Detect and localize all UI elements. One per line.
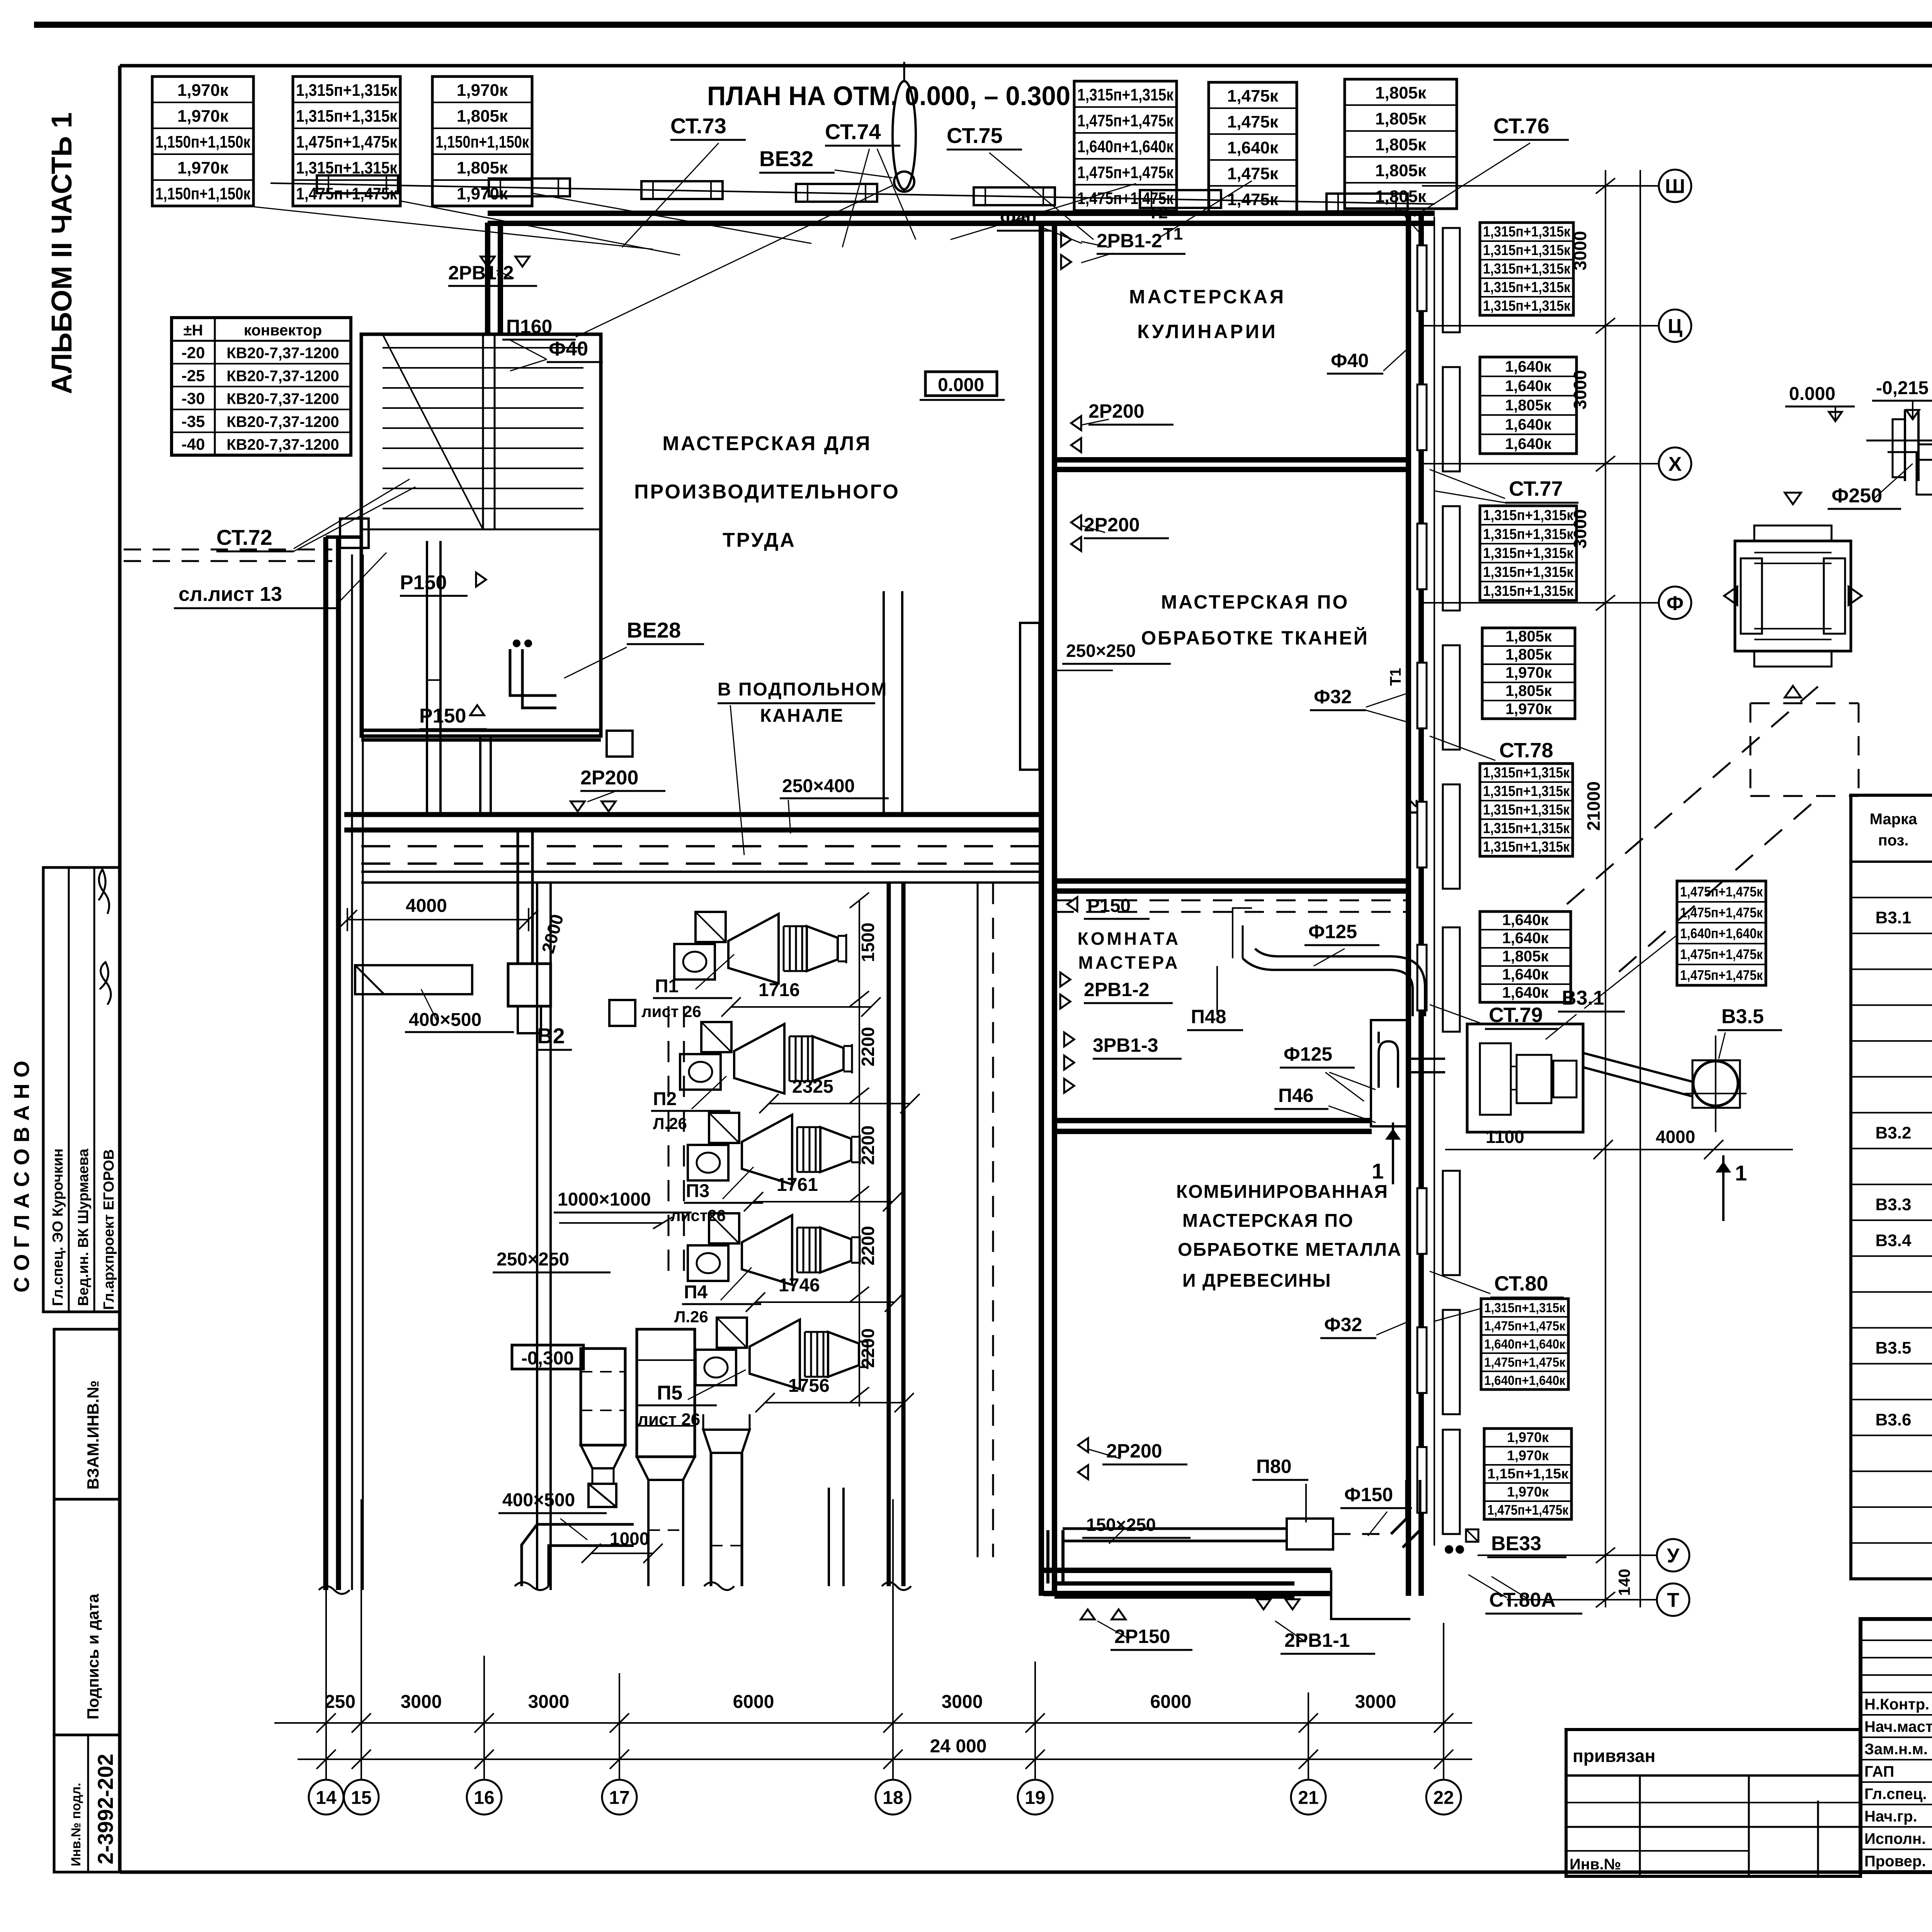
svg-text:1,475п+1,475к: 1,475п+1,475к xyxy=(1680,884,1763,900)
grid line extension xyxy=(361,1499,362,1779)
value stack table xyxy=(152,77,253,206)
pilaster niche xyxy=(1443,1430,1460,1534)
svg-text:1,805к: 1,805к xyxy=(1375,161,1427,180)
radiator xyxy=(641,181,723,199)
pilaster niche xyxy=(1443,1310,1460,1414)
svg-text:Ц: Ц xyxy=(1668,315,1682,338)
intake wall & duct F250 left xyxy=(1904,410,1906,481)
svg-text:привязан: привязан xyxy=(1573,1746,1655,1766)
window at right wall xyxy=(1417,384,1427,450)
svg-text:2РВ1-2: 2РВ1-2 xyxy=(448,262,514,284)
P80 branch box xyxy=(1287,1519,1333,1549)
value stack table xyxy=(1074,81,1177,211)
svg-text:Подпись и дата: Подпись и дата xyxy=(84,1594,102,1719)
svg-text:Инв.№: Инв.№ xyxy=(1570,1856,1621,1873)
svg-text:16: 16 xyxy=(474,1787,494,1808)
machine P2 xyxy=(680,1022,852,1094)
svg-text:2200: 2200 xyxy=(858,1328,878,1368)
svg-text:ПРОИЗВОДИТЕЛЬНОГО: ПРОИЗВОДИТЕЛЬНОГО xyxy=(634,481,900,503)
svg-text:18: 18 xyxy=(883,1787,903,1808)
value stack table xyxy=(1480,357,1577,454)
svg-text:1,150п+1,150к: 1,150п+1,150к xyxy=(155,184,251,203)
svg-text:Исполн.: Исполн. xyxy=(1864,1830,1926,1847)
svg-text:МАСТЕРСКАЯ ПО: МАСТЕРСКАЯ ПО xyxy=(1182,1211,1354,1231)
svg-text:1,315п+1,315к: 1,315п+1,315к xyxy=(1483,583,1574,599)
svg-text:2Р200: 2Р200 xyxy=(1088,400,1145,422)
right outer wall xyxy=(1406,213,1411,1596)
svg-text:1,150п+1,150к: 1,150п+1,150к xyxy=(155,133,251,151)
svg-text:1,640п+1,640к: 1,640п+1,640к xyxy=(1484,1373,1566,1388)
svg-text:1,315п+1,315к: 1,315п+1,315к xyxy=(1483,783,1570,799)
silo 1 xyxy=(581,1349,625,1445)
svg-text:1,805к: 1,805к xyxy=(1505,397,1552,414)
svg-text:В3.3: В3.3 xyxy=(1876,1195,1912,1214)
svg-text:1,475п+1,475к: 1,475п+1,475к xyxy=(1077,163,1174,182)
svg-text:ГАП: ГАП xyxy=(1864,1763,1894,1780)
grid axis 19 xyxy=(1018,1780,1053,1815)
machine P4 xyxy=(688,1213,860,1285)
svg-text:1716: 1716 xyxy=(759,980,800,1000)
radiator xyxy=(1140,190,1221,208)
svg-text:1746: 1746 xyxy=(779,1275,820,1296)
svg-text:СТ.80: СТ.80 xyxy=(1494,1272,1548,1295)
svg-text:21: 21 xyxy=(1298,1787,1318,1808)
value stack table xyxy=(1480,912,1571,1002)
grid line extension xyxy=(325,1499,327,1779)
svg-text:Ф125: Ф125 xyxy=(1308,921,1357,942)
cyclone plan xyxy=(1692,1060,1740,1108)
svg-text:-0,215: -0,215 xyxy=(1876,378,1929,398)
svg-text:П2: П2 xyxy=(653,1089,677,1109)
svg-text:1,970к: 1,970к xyxy=(177,81,229,100)
svg-text:П3: П3 xyxy=(686,1181,709,1201)
svg-text:Зам.н.м.: Зам.н.м. xyxy=(1864,1741,1928,1758)
svg-text:Ф32: Ф32 xyxy=(1314,686,1352,707)
grid axis 22 xyxy=(1426,1780,1461,1815)
top wall xyxy=(488,211,1435,216)
value stack table xyxy=(1480,764,1573,856)
svg-text:19: 19 xyxy=(1025,1787,1045,1808)
svg-text:1,315п+1,315к: 1,315п+1,315к xyxy=(1483,839,1570,855)
svg-text:2200: 2200 xyxy=(858,1226,878,1265)
svg-text:1,315п+1,315к: 1,315п+1,315к xyxy=(1483,507,1574,524)
machine P5 xyxy=(696,1318,867,1389)
svg-text:ОБРАБОТКЕ ТКАНЕЙ: ОБРАБОТКЕ ТКАНЕЙ xyxy=(1141,627,1369,649)
svg-text:Т1: Т1 xyxy=(1163,224,1183,243)
svg-text:1,805к: 1,805к xyxy=(457,158,508,177)
svg-text:КВ20-7,37-1200: КВ20-7,37-1200 xyxy=(226,436,339,453)
svg-text:Гл.спец. ЭО Курочкин: Гл.спец. ЭО Курочкин xyxy=(50,1148,66,1306)
svg-text:В3.2: В3.2 xyxy=(1876,1123,1912,1142)
svg-text:1,640к: 1,640к xyxy=(1502,966,1549,983)
svg-text:МАСТЕРСКАЯ ДЛЯ: МАСТЕРСКАЯ ДЛЯ xyxy=(662,432,871,455)
konvektor table xyxy=(172,318,351,455)
svg-text:ВЕ28: ВЕ28 xyxy=(627,618,681,642)
svg-text:1,475к: 1,475к xyxy=(1227,112,1279,131)
svg-text:250×250: 250×250 xyxy=(497,1249,569,1270)
svg-text:1,640п+1,640к: 1,640п+1,640к xyxy=(1680,925,1763,941)
svg-text:Л.26: Л.26 xyxy=(653,1114,687,1133)
svg-text:14: 14 xyxy=(316,1787,337,1808)
svg-text:2200: 2200 xyxy=(858,1027,878,1066)
svg-text:1,315п+1,315к: 1,315п+1,315к xyxy=(1483,526,1574,543)
stair tread xyxy=(383,508,583,509)
svg-text:1,315п+1,315к: 1,315п+1,315к xyxy=(1483,820,1570,837)
svg-text:1,315п+1,315к: 1,315п+1,315к xyxy=(1483,564,1574,580)
svg-text:КВ20-7,37-1200: КВ20-7,37-1200 xyxy=(226,391,339,408)
svg-text:конвектор: конвектор xyxy=(244,322,322,339)
grille unit box with loops xyxy=(1371,1020,1410,1126)
svg-text:1: 1 xyxy=(1735,1161,1747,1185)
svg-text:-35: -35 xyxy=(182,412,205,430)
svg-text:1,315п+1,315к: 1,315п+1,315к xyxy=(296,107,398,126)
svg-text:22: 22 xyxy=(1433,1787,1454,1808)
svg-text:Ф40: Ф40 xyxy=(1000,208,1036,228)
lower stamp boxes xyxy=(54,1329,120,1499)
svg-text:Л.26: Л.26 xyxy=(674,1308,708,1326)
room divider: tkani / komnata mastera xyxy=(1054,878,1408,884)
svg-text:П5: П5 xyxy=(657,1382,682,1404)
second duct pair xyxy=(977,883,979,1557)
stair tread xyxy=(383,447,583,449)
svg-text:СТ.74: СТ.74 xyxy=(825,119,881,144)
tall duct with bell (P5 riser) xyxy=(710,1453,713,1586)
dashed square below heater xyxy=(1750,703,1752,796)
room divider right block: kulinariya/tkani xyxy=(1054,457,1408,463)
grid axis Х xyxy=(1659,447,1691,480)
grid line extension xyxy=(1034,1662,1036,1779)
dims 1100 and 4000 at fan xyxy=(1445,1149,1793,1150)
value stack table xyxy=(1480,506,1577,600)
inner left wall lower xyxy=(351,554,353,1590)
svg-text:КОМБИНИРОВАННАЯ: КОМБИНИРОВАННАЯ xyxy=(1176,1182,1388,1202)
heater unit plan xyxy=(1724,493,1862,697)
vertical dim chain right of machines xyxy=(859,900,860,1406)
svg-text:ТРУДА: ТРУДА xyxy=(723,529,796,551)
grid axis 18 xyxy=(876,1780,910,1815)
svg-text:Нач.гр.: Нач.гр. xyxy=(1864,1808,1917,1825)
cyclone plan circle xyxy=(1693,1061,1738,1106)
svg-text:С О Г Л А С О В А Н О: С О Г Л А С О В А Н О xyxy=(9,1061,34,1293)
svg-text:1,315п+1,315к: 1,315п+1,315к xyxy=(1483,242,1571,259)
svg-text:В3.5: В3.5 xyxy=(1876,1338,1912,1357)
svg-text:-40: -40 xyxy=(182,435,205,453)
radiator xyxy=(489,179,570,196)
svg-text:1,315п+1,315к: 1,315п+1,315к xyxy=(1483,224,1571,240)
approval stamp table xyxy=(43,867,120,1312)
svg-text:Ш: Ш xyxy=(1665,175,1685,198)
svg-text:1,315п+1,315к: 1,315п+1,315к xyxy=(1483,802,1570,818)
svg-text:В3.4: В3.4 xyxy=(1876,1231,1912,1250)
duct to cyclone xyxy=(1583,1053,1693,1082)
bottom dims xyxy=(274,1722,1472,1724)
signatures squiggles xyxy=(99,869,109,914)
stair block xyxy=(361,334,601,736)
svg-text:Вед.ин. ВК Шурмаева: Вед.ин. ВК Шурмаева xyxy=(75,1148,92,1306)
svg-text:Х: Х xyxy=(1668,453,1682,476)
svg-text:1,640к: 1,640к xyxy=(1502,912,1549,929)
svg-text:И ДРЕВЕСИНЫ: И ДРЕВЕСИНЫ xyxy=(1182,1270,1332,1291)
privyazan box xyxy=(1566,1730,1861,1876)
window at right wall xyxy=(1417,1188,1427,1254)
svg-text:24 000: 24 000 xyxy=(930,1736,987,1757)
svg-text:ВЕ32: ВЕ32 xyxy=(759,146,813,171)
svg-text:1,970к: 1,970к xyxy=(177,107,229,126)
svg-text:П48: П48 xyxy=(1191,1006,1226,1027)
machine room left wall xyxy=(536,883,538,1590)
svg-text:1,150п+1,150к: 1,150п+1,150к xyxy=(435,133,529,151)
elbow up to BE33 xyxy=(1391,1480,1406,1534)
svg-text:2Р200: 2Р200 xyxy=(1106,1440,1162,1462)
svg-text:ВЗАМ.ИНВ.№: ВЗАМ.ИНВ.№ xyxy=(84,1381,102,1490)
section cut marks 1-1 xyxy=(1392,1122,1394,1184)
svg-text:1756: 1756 xyxy=(788,1376,830,1396)
value stack table xyxy=(432,77,532,206)
leader lines from stack tables to wall xyxy=(253,207,653,249)
svg-text:2325: 2325 xyxy=(792,1077,833,1097)
fan B2 xyxy=(508,964,551,1006)
vertical dim line right of plan xyxy=(1605,170,1606,1607)
lower duct run 150x250 xyxy=(1063,1527,1287,1530)
duct 250x400 under wall xyxy=(361,871,1041,873)
svg-text:15: 15 xyxy=(351,1787,371,1808)
svg-text:2РВ1-2: 2РВ1-2 xyxy=(1084,979,1150,1000)
svg-text:КАНАЛЕ: КАНАЛЕ xyxy=(760,706,844,726)
grid axis 17 xyxy=(602,1780,637,1815)
svg-text:3000: 3000 xyxy=(1355,1692,1396,1712)
svg-text:У: У xyxy=(1667,1545,1680,1567)
svg-text:6000: 6000 xyxy=(733,1692,774,1712)
svg-text:1,475п+1,475к: 1,475п+1,475к xyxy=(1680,946,1763,962)
svg-text:2Р200: 2Р200 xyxy=(580,767,638,789)
svg-text:Т: Т xyxy=(1667,1589,1679,1612)
svg-text:2200: 2200 xyxy=(858,1126,878,1165)
svg-text:4000: 4000 xyxy=(1656,1127,1695,1147)
svg-text:Нач.маст.: Нач.маст. xyxy=(1864,1718,1932,1735)
svg-text:1,315п+1,315к: 1,315п+1,315к xyxy=(296,81,398,100)
radiator xyxy=(317,175,398,193)
right wall outer band xyxy=(1434,216,1435,1546)
svg-text:1,970к: 1,970к xyxy=(457,81,508,100)
grid axis Ц xyxy=(1659,310,1691,342)
underfloor channel dashed lines xyxy=(361,845,1041,847)
svg-text:1,970к: 1,970к xyxy=(1507,1447,1549,1463)
svg-text:±Н: ±Н xyxy=(184,322,203,339)
BE28 elbow duct xyxy=(510,649,556,696)
svg-text:6000: 6000 xyxy=(1150,1692,1192,1712)
svg-text:В3.5: В3.5 xyxy=(1721,1005,1764,1028)
svg-text:В2: В2 xyxy=(537,1024,565,1048)
svg-text:В ПОДПОЛЬНОМ: В ПОДПОЛЬНОМ xyxy=(718,679,888,700)
grid line extension xyxy=(1308,1692,1309,1779)
fan unit plan xyxy=(1467,1024,1583,1132)
svg-text:1,805к: 1,805к xyxy=(1375,109,1427,128)
dashed leaders to section xyxy=(1567,678,1828,904)
svg-text:1100: 1100 xyxy=(1486,1127,1524,1147)
svg-text:1,640п+1,640к: 1,640п+1,640к xyxy=(1077,137,1174,156)
vertical duct in workshop to channel xyxy=(883,591,885,815)
radiator xyxy=(796,184,877,202)
svg-text:КВ20-7,37-1200: КВ20-7,37-1200 xyxy=(226,367,339,384)
svg-text:Ф150: Ф150 xyxy=(1344,1484,1393,1505)
svg-text:250×400: 250×400 xyxy=(782,776,855,796)
svg-text:Т1: Т1 xyxy=(1387,668,1404,686)
value stack table xyxy=(1484,1429,1571,1519)
window at right wall xyxy=(1417,663,1427,728)
lower elbow duct xyxy=(522,1524,634,1586)
svg-text:Н.Контр.: Н.Контр. xyxy=(1864,1696,1929,1713)
room divider: komnata mastera bottom xyxy=(1054,1118,1372,1123)
window at right wall xyxy=(1417,1447,1427,1513)
pilaster niche xyxy=(1443,1171,1460,1275)
value stack table xyxy=(1480,223,1573,315)
svg-text:КВ20-7,37-1200: КВ20-7,37-1200 xyxy=(226,345,339,362)
svg-text:-25: -25 xyxy=(182,366,205,384)
svg-text:3000: 3000 xyxy=(401,1692,442,1712)
window at right wall xyxy=(1417,945,1427,1010)
svg-text:1,970к: 1,970к xyxy=(1505,664,1552,681)
svg-text:2-3992-202: 2-3992-202 xyxy=(93,1754,117,1864)
svg-text:МАСТЕРСКАЯ ПО: МАСТЕРСКАЯ ПО xyxy=(1161,591,1349,613)
svg-text:1,640к: 1,640к xyxy=(1505,416,1552,433)
svg-text:Р150: Р150 xyxy=(1087,896,1131,916)
svg-text:1500: 1500 xyxy=(858,923,878,962)
svg-text:Гл.архпроект ЕГОРОВ: Гл.архпроект ЕГОРОВ xyxy=(101,1149,117,1310)
svg-text:3РВ1-3: 3РВ1-3 xyxy=(1093,1034,1158,1056)
svg-text:-20: -20 xyxy=(182,344,205,362)
stair tread xyxy=(383,407,583,409)
radiator band line xyxy=(270,183,1435,204)
svg-text:1,640к: 1,640к xyxy=(1227,138,1279,157)
corridor wall below stairs xyxy=(479,736,481,815)
value stack table xyxy=(1345,79,1457,209)
window at right wall xyxy=(1417,245,1427,311)
svg-text:1,640к: 1,640к xyxy=(1505,378,1552,395)
machine P1 xyxy=(674,912,846,983)
pilaster niche xyxy=(1443,367,1460,471)
value stack table xyxy=(1677,881,1766,985)
pilaster niche xyxy=(1443,506,1460,611)
grid axis Ф xyxy=(1659,587,1691,619)
wall left of workshop xyxy=(485,223,490,334)
svg-text:П160: П160 xyxy=(506,316,552,337)
svg-text:17: 17 xyxy=(609,1787,629,1808)
stair tread xyxy=(383,427,583,429)
svg-text:1,475к: 1,475к xyxy=(1227,190,1279,209)
duct 400x500 xyxy=(355,965,472,994)
svg-text:1,315п+1,315к: 1,315п+1,315к xyxy=(1484,1301,1566,1315)
svg-text:П46: П46 xyxy=(1278,1085,1314,1106)
svg-text:1,315п+1,315к: 1,315п+1,315к xyxy=(1483,279,1571,296)
svg-text:П4: П4 xyxy=(684,1282,708,1303)
center wall xyxy=(1039,223,1044,1596)
svg-text:400×500: 400×500 xyxy=(502,1490,575,1510)
svg-text:2Р150: 2Р150 xyxy=(1114,1626,1170,1647)
title block xyxy=(1861,1619,1932,1872)
svg-text:КОМНАТА: КОМНАТА xyxy=(1078,929,1181,949)
svg-text:1,315п+1,315к: 1,315п+1,315к xyxy=(1483,545,1574,561)
dim 4000 xyxy=(347,919,529,920)
svg-text:ПЛАН НА ОТМ. 0.000, – 0.300: ПЛАН НА ОТМ. 0.000, – 0.300 xyxy=(707,81,1070,111)
svg-text:1,640к: 1,640к xyxy=(1505,358,1552,375)
svg-text:СТ.76: СТ.76 xyxy=(1493,114,1549,138)
svg-text:МАСТЕРСКАЯ: МАСТЕРСКАЯ xyxy=(1129,286,1286,308)
pilaster niche xyxy=(1443,927,1460,1032)
value stack table xyxy=(293,77,400,206)
svg-text:1,640к: 1,640к xyxy=(1505,435,1552,452)
svg-text:1,15п+1,15к: 1,15п+1,15к xyxy=(1487,1466,1569,1481)
svg-text:Инв.№ подл.: Инв.№ подл. xyxy=(69,1783,83,1866)
svg-text:1,475п+1,475к: 1,475п+1,475к xyxy=(1077,111,1174,130)
svg-text:2РВ1-2: 2РВ1-2 xyxy=(1097,230,1162,252)
svg-text:1,475п+1,475к: 1,475п+1,475к xyxy=(1484,1355,1566,1370)
left outer wall xyxy=(323,537,328,1590)
svg-text:140: 140 xyxy=(1615,1569,1633,1596)
svg-text:1,315п+1,315к: 1,315п+1,315к xyxy=(1077,85,1174,104)
svg-text:1,805к: 1,805к xyxy=(1502,948,1549,965)
svg-text:Ф40: Ф40 xyxy=(1331,350,1369,371)
svg-text:ОБРАБОТКЕ МЕТАЛЛА: ОБРАБОТКЕ МЕТАЛЛА xyxy=(1178,1240,1402,1260)
svg-text:КВ20-7,37-1200: КВ20-7,37-1200 xyxy=(226,413,339,430)
grid axis Ш xyxy=(1659,170,1691,202)
svg-text:П1: П1 xyxy=(655,976,679,997)
bottom wall right block xyxy=(1043,1568,1331,1573)
svg-text:Ф125: Ф125 xyxy=(1284,1043,1332,1065)
dashed duct 1000x1000 xyxy=(668,1006,670,1279)
BE32 shaft oval xyxy=(893,81,916,189)
steps left of pit xyxy=(1888,452,1932,537)
value stack table xyxy=(1209,82,1297,212)
svg-text:П80: П80 xyxy=(1256,1456,1292,1477)
svg-text:1,475к: 1,475к xyxy=(1227,164,1279,183)
svg-text:1,970к: 1,970к xyxy=(1505,701,1552,718)
svg-text:В3.1: В3.1 xyxy=(1876,908,1912,927)
thick bottom duct xyxy=(1054,1582,1294,1586)
BE33 box xyxy=(1466,1529,1478,1542)
wall bottom of workshop room xyxy=(344,812,1041,817)
floor slab lines xyxy=(1866,440,1932,442)
svg-text:1,315п+1,315к: 1,315п+1,315к xyxy=(1483,298,1571,314)
svg-text:2РВ1-1: 2РВ1-1 xyxy=(1284,1629,1350,1651)
svg-text:1,805к: 1,805к xyxy=(1505,628,1552,645)
svg-text:1,475п+1,475к: 1,475п+1,475к xyxy=(1680,967,1763,983)
grid line extension xyxy=(892,1499,894,1779)
svg-text:3000: 3000 xyxy=(1570,231,1590,270)
svg-text:Марка: Марка xyxy=(1870,811,1918,828)
machine P3 xyxy=(688,1113,860,1184)
svg-text:1,805к: 1,805к xyxy=(1505,682,1552,699)
svg-text:1,805к: 1,805к xyxy=(457,107,508,126)
svg-text:3000: 3000 xyxy=(528,1692,570,1712)
svg-text:1,315п+1,315к: 1,315п+1,315к xyxy=(1483,261,1571,277)
svg-text:МАСТЕРА: МАСТЕРА xyxy=(1078,952,1180,973)
svg-text:1,970к: 1,970к xyxy=(177,158,229,177)
stair tread xyxy=(383,468,583,469)
grid line extension xyxy=(1443,1623,1444,1779)
junction box on dashed line xyxy=(609,1000,635,1026)
svg-text:СТ.72: СТ.72 xyxy=(216,525,272,549)
svg-text:Ф40: Ф40 xyxy=(549,338,588,360)
svg-text:1,315п+1,315к: 1,315п+1,315к xyxy=(1483,765,1570,781)
value stack table xyxy=(1482,628,1575,719)
svg-text:-0,300: -0,300 xyxy=(521,1348,574,1369)
dashed corridor to sheet 13 xyxy=(124,549,332,551)
svg-text:СТ.77: СТ.77 xyxy=(1509,477,1563,500)
svg-text:лист 26: лист 26 xyxy=(641,1002,701,1020)
svg-text:сл.лист 13: сл.лист 13 xyxy=(179,583,282,605)
svg-text:1,475п+1,475к: 1,475п+1,475к xyxy=(296,133,398,151)
svg-text:250×250: 250×250 xyxy=(1066,641,1136,661)
